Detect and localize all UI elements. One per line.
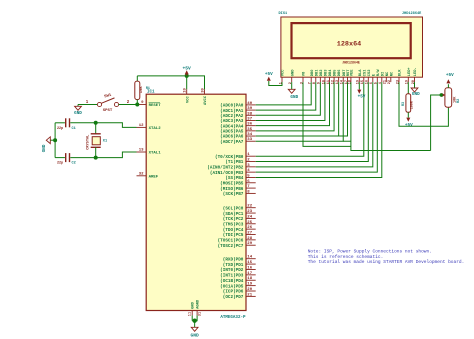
LCD pin 13 DB6 stub [338, 77, 340, 82]
pin 40 (ADC0)PA0 stub [246, 104, 256, 106]
supply +5V main arrow [185, 70, 189, 74]
svg-text:DB4: DB4 [329, 69, 333, 76]
svg-text:C1: C1 [72, 127, 76, 131]
svg-text:SPST: SPST [103, 109, 113, 113]
svg-text:21: 21 [384, 80, 388, 84]
junction chip ground node [192, 319, 196, 323]
wire LCD E to PB2 [256, 82, 373, 167]
LCD pin 19 LED+ stub [407, 77, 409, 82]
LCD pin 4 DI stub [381, 77, 383, 82]
pin 1 (T0/XCK)PB0 stub [246, 155, 256, 157]
svg-text:XTAL2: XTAL2 [149, 127, 162, 131]
svg-text:(SCK)PB7: (SCK)PB7 [223, 192, 244, 197]
svg-text:15: 15 [361, 80, 365, 84]
junction wiper node [440, 93, 443, 96]
svg-text:31: 31 [198, 312, 202, 316]
LCD screen area [292, 23, 411, 58]
LCD pin 20 LED- stub [414, 77, 416, 82]
svg-text:RESET: RESET [149, 104, 162, 108]
svg-text:C2: C2 [72, 162, 76, 166]
wire R2 top to +5V [447, 84, 449, 88]
junction RESET / R1 node [135, 103, 139, 107]
svg-text:(TXD)PD1: (TXD)PD1 [223, 263, 244, 268]
wire DB5 to PA5 [256, 82, 334, 131]
svg-text:33: 33 [247, 138, 252, 142]
svg-text:10K: 10K [140, 86, 144, 94]
svg-text:(MOSI)PB5: (MOSI)PB5 [220, 181, 244, 186]
svg-text:23: 23 [247, 210, 252, 214]
svg-text:+5V: +5V [183, 65, 192, 71]
switch SW1 contact 1 [97, 102, 101, 106]
svg-text:VEE: VEE [351, 69, 355, 76]
svg-text:38: 38 [247, 112, 252, 116]
wire LCD RST down to PA6 row [339, 82, 348, 136]
svg-text:CS2: CS2 [368, 70, 372, 77]
pin 23 (SDA)PC1 stub [246, 212, 256, 214]
svg-text:1: 1 [279, 82, 283, 84]
svg-text:(SDA)PC1: (SDA)PC1 [223, 212, 244, 217]
svg-text:(TOSC2)PC7: (TOSC2)PC7 [218, 244, 244, 249]
svg-text:+5V: +5V [446, 73, 454, 78]
pin 18 (OC1B)PD4 stub [246, 279, 256, 281]
svg-text:R1: R1 [146, 87, 150, 91]
svg-text:(TOSC1)PC6: (TOSC1)PC6 [218, 239, 244, 244]
pin 33 (ADC7)PA7 stub [246, 140, 256, 142]
pin 32 AREF stub [137, 175, 147, 177]
wire XTAL2 net top [96, 123, 137, 128]
LCD pin 7 DB0 stub [310, 77, 312, 82]
LCD pin 3 VO stub [302, 77, 304, 82]
svg-text:100R: 100R [410, 100, 414, 109]
LCD pin 21 NC stub [385, 77, 387, 82]
svg-text:22p: 22p [57, 127, 63, 131]
svg-text:(ICP)PD6: (ICP)PD6 [223, 290, 244, 295]
svg-text:JHD12864E: JHD12864E [342, 61, 360, 65]
svg-text:26: 26 [247, 226, 252, 230]
pin 35 (ADC5)PA5 stub [246, 130, 256, 132]
wire LCD CS2 to PB1 [256, 82, 369, 161]
pin 14 (RXD)PD0 stub [246, 258, 256, 260]
svg-text:4: 4 [379, 82, 383, 84]
svg-text:(MISO)PB6: (MISO)PB6 [220, 187, 244, 192]
wire DB4 to PA4 [256, 82, 330, 126]
resistor R3 body [406, 94, 411, 113]
svg-text:20: 20 [247, 288, 252, 292]
svg-text:NC: NC [390, 71, 394, 76]
pin 19 (OC1A)PD5 stub [246, 285, 256, 287]
pin 3 (AIN0/INT2)PB2 stub [246, 166, 256, 168]
svg-text:12: 12 [331, 80, 335, 84]
svg-text:XTAL1: XTAL1 [149, 152, 162, 156]
svg-text:10: 10 [322, 80, 326, 84]
wire DB0 to PA0 [256, 82, 312, 105]
svg-text:(TDO)PC4: (TDO)PC4 [223, 228, 244, 233]
LCD pin 9 DB2 stub [319, 77, 321, 82]
ground GND at LCD [288, 89, 295, 93]
pin 36 (ADC4)PA4 stub [246, 125, 256, 127]
wire LCD VCC to +5V [269, 81, 282, 86]
pin 21 (OC2)PD7 stub [246, 295, 256, 297]
svg-text:37: 37 [247, 117, 252, 121]
svg-text:19: 19 [406, 80, 410, 84]
svg-text:GND: GND [74, 111, 82, 116]
svg-text:GND: GND [191, 333, 200, 339]
pin 20 (ICP)PD6 stub [246, 290, 256, 292]
svg-text:AGND: AGND [197, 299, 201, 309]
wire DB2 to PA2 [256, 82, 321, 115]
svg-text:DB0: DB0 [311, 70, 315, 77]
chip IC1 ATMEGA32 body [146, 94, 246, 310]
svg-text:(SS)PB4: (SS)PB4 [225, 176, 243, 181]
wire LCD LED+ to R3 [407, 82, 409, 94]
svg-text:JHD12864E: JHD12864E [402, 12, 422, 16]
switch SW1 lever [101, 98, 114, 103]
svg-text:(INT1)PD3: (INT1)PD3 [220, 274, 244, 279]
pin 25 (TMS)PC3 stub [246, 223, 256, 225]
svg-text:GND: GND [290, 95, 298, 100]
svg-text:AREF: AREF [149, 176, 159, 180]
svg-text:(TDI)PC5: (TDI)PC5 [223, 233, 244, 238]
wire DB6 to PA6 [256, 82, 339, 136]
pin 11 GND stub [191, 311, 193, 316]
LCD pin 6 E stub [372, 77, 374, 82]
supply +5V below R3 [406, 118, 410, 122]
LCD pin 22 NC stub [390, 77, 392, 82]
pin 26 (TDO)PC4 stub [246, 228, 256, 230]
svg-text:3: 3 [300, 82, 304, 84]
wire LCD VEE down through PA7 row to wiper rail [351, 82, 431, 150]
svg-text:27: 27 [247, 232, 252, 236]
crystal X1 top plate [91, 133, 101, 135]
svg-text:35: 35 [247, 128, 252, 132]
pin 8 (SCK)PB7 stub [246, 192, 256, 194]
svg-text:LED-: LED- [414, 67, 418, 76]
svg-text:13: 13 [336, 80, 340, 84]
svg-text:+5V: +5V [358, 95, 366, 100]
svg-text:NC: NC [386, 71, 390, 76]
LCD pin 17 RST stub [347, 77, 349, 82]
svg-text:19: 19 [357, 80, 361, 84]
ground GND at crystal rail [50, 139, 55, 141]
svg-text:(INT0)PD2: (INT0)PD2 [220, 268, 244, 273]
ground GND at switch [77, 105, 79, 107]
pin 22 (SCL)PC0 stub [246, 207, 256, 209]
svg-text:DB2: DB2 [320, 70, 324, 77]
pin 2 (T1)PB1 stub [246, 161, 256, 163]
svg-text:GND: GND [291, 69, 295, 76]
capacitor C1 left lead [55, 122, 65, 124]
wire left rail C1-C2 [54, 123, 56, 158]
svg-text:8: 8 [313, 82, 317, 84]
pin 28 (TOSC1)PC6 stub [246, 239, 256, 241]
svg-text:128x64: 128x64 [337, 41, 361, 49]
crystal X1 top lead [95, 123, 97, 134]
svg-text:(AIN0/INT2)PB2: (AIN0/INT2)PB2 [207, 166, 244, 171]
junction left rail GND tap [53, 138, 57, 142]
capacitor C1 right lead [70, 122, 95, 124]
LCD pin 23 BLK stub [398, 77, 400, 82]
supply +5V at LCD VCC [267, 77, 271, 81]
pin 17 (INT1)PD3 stub [246, 274, 256, 276]
svg-text:18: 18 [247, 277, 252, 281]
svg-text:CS1: CS1 [363, 69, 367, 76]
svg-text:BLA: BLA [359, 69, 363, 76]
svg-text:23: 23 [396, 80, 400, 84]
svg-text:LED+: LED+ [408, 67, 412, 77]
pin 30 AVCC stub [204, 89, 206, 94]
pin 7 (MISO)PB6 stub [246, 187, 256, 189]
trimmer R2 wiper arrow [442, 93, 446, 97]
svg-text:VCC: VCC [186, 95, 190, 103]
svg-text:39: 39 [247, 107, 252, 111]
svg-text:(AIN1/OC0)PB3: (AIN1/OC0)PB3 [210, 171, 244, 176]
svg-text:AVCC: AVCC [204, 95, 208, 105]
svg-text:36: 36 [247, 123, 252, 127]
pin 34 (ADC6)PA6 stub [246, 135, 256, 137]
svg-text:25: 25 [247, 221, 252, 225]
svg-text:(OC1A)PD5: (OC1A)PD5 [220, 284, 244, 289]
svg-text:(TCK)PC2: (TCK)PC2 [223, 217, 244, 222]
svg-text:13: 13 [139, 149, 144, 153]
svg-text:Note: ISP, Power Supply Connec: Note: ISP, Power Supply Connections not … [308, 249, 432, 255]
svg-text:2: 2 [289, 82, 293, 84]
svg-text:(TMS)PC3: (TMS)PC3 [223, 222, 244, 227]
wire LCD backlight-anode pin to +5V [358, 82, 360, 89]
wire +5V to AVCC pin30 [187, 76, 205, 89]
svg-text:16: 16 [366, 80, 370, 84]
svg-text:DIS1: DIS1 [279, 12, 288, 16]
pin 13 XTAL1 stub [137, 151, 147, 153]
svg-text:(T0/XCK)PB0: (T0/XCK)PB0 [215, 155, 244, 160]
pin 5 (SS)PB4 stub [246, 176, 256, 178]
LCD pin 16 CS2 stub [367, 77, 369, 82]
LCD pin 2 GND stub [291, 77, 293, 82]
svg-text:GND: GND [192, 301, 196, 309]
wire DB7 to PA7 [256, 82, 344, 141]
svg-text:R3: R3 [402, 102, 406, 106]
pin 4 (AIN1/OC0)PB3 stub [246, 171, 256, 173]
svg-text:(OC2)PD7: (OC2)PD7 [223, 295, 244, 300]
wire LCD LED- to ground [414, 82, 416, 88]
LCD pin 19 BLA stub [358, 77, 360, 82]
svg-text:15: 15 [247, 261, 252, 265]
svg-text:20: 20 [412, 80, 416, 84]
wire R3 bottom lead [407, 112, 409, 117]
svg-text:CRYSTAL: CRYSTAL [86, 135, 90, 150]
pin 12 XTAL2 stub [137, 126, 147, 128]
supply +5V below LCD control pin [357, 90, 361, 94]
svg-text:DI: DI [381, 72, 385, 76]
svg-text:21: 21 [247, 293, 252, 297]
svg-text:This is reference schematic.: This is reference schematic. [308, 254, 384, 260]
LCD pin 1 VCC stub [281, 77, 283, 82]
wire LCD R/W to PB3 [256, 82, 378, 172]
wire +5V rail to R1 top [137, 75, 186, 77]
wire LCD CS1 to PB0 [256, 82, 364, 156]
svg-text:(OC1B)PD4: (OC1B)PD4 [220, 279, 244, 284]
wire switch pin2 to RESET pin [119, 104, 137, 106]
svg-text:(ADC7)PA7: (ADC7)PA7 [220, 140, 244, 145]
pin 37 (ADC3)PA3 stub [246, 119, 256, 121]
svg-text:GND: GND [42, 144, 47, 152]
wire DB3 to PA3 [256, 82, 325, 120]
svg-text:16: 16 [247, 266, 252, 270]
pin 27 (TDI)PC5 stub [246, 234, 256, 236]
wire wiper to VO net [431, 95, 442, 151]
pin 31 AGND stub [196, 311, 198, 316]
LCD module DIS1 body [281, 17, 423, 77]
svg-text:24: 24 [247, 215, 252, 219]
svg-text:R/W: R/W [376, 69, 381, 76]
resistor R1 body [135, 81, 140, 100]
wire AGND pin31 down [192, 315, 197, 320]
pin 39 (ADC1)PA1 stub [246, 109, 256, 111]
wire PA7 row extension to VEE vertical [343, 140, 351, 142]
svg-text:9: 9 [318, 82, 322, 84]
svg-text:VO: VO [303, 71, 307, 76]
supply +5V above R2 [446, 79, 450, 83]
wire LCD DI to PB4 [256, 82, 382, 177]
svg-text:22p: 22p [57, 162, 63, 166]
trimmer R2 body [445, 88, 452, 107]
svg-text:28: 28 [247, 237, 252, 241]
wire VO vertical and horizontal run [303, 82, 351, 146]
wire down to GND symbol [194, 321, 196, 328]
ground GND below chip [191, 327, 198, 331]
pin 10 VCC stub [186, 89, 188, 94]
pin 16 (INT0)PD2 stub [246, 268, 256, 270]
LCD pin 15 CS1 stub [363, 77, 365, 82]
wire LCD backlight pin to trimmer bottom rail [399, 82, 448, 126]
wire +5V to VCC pin10 [186, 76, 188, 89]
pin 38 (ADC2)PA2 stub [246, 114, 256, 116]
LCD pin 10 DB3 stub [324, 77, 326, 82]
svg-text:5: 5 [375, 82, 379, 84]
crystal X1 bottom lead [95, 147, 97, 157]
svg-text:(SCL)PC0: (SCL)PC0 [223, 206, 244, 211]
svg-text:22: 22 [388, 80, 392, 84]
capacitor C2 left lead [55, 157, 65, 159]
LCD pin 11 DB4 stub [329, 77, 331, 82]
svg-text:+5V: +5V [265, 72, 273, 77]
svg-text:34: 34 [247, 133, 252, 137]
LCD pin 5 R/W stub [376, 77, 378, 82]
svg-text:17: 17 [247, 272, 252, 276]
crystal X1 body [92, 137, 100, 145]
svg-text:DB3: DB3 [325, 69, 329, 76]
svg-text:GND: GND [412, 92, 420, 97]
svg-text:19: 19 [247, 283, 252, 287]
svg-text:6: 6 [370, 82, 374, 84]
svg-text:X1: X1 [103, 140, 107, 144]
svg-text:The tutorial was made using ST: The tutorial was made using STARTER AVR … [308, 259, 465, 265]
svg-text:11: 11 [327, 80, 331, 84]
switch SW1 contact 2 [114, 102, 118, 106]
ground GND at LED- [411, 88, 418, 92]
LCD pin 12 DB5 stub [333, 77, 335, 82]
crystal X1 bottom plate [91, 146, 101, 148]
LCD pin 8 DB1 stub [315, 77, 317, 82]
svg-text:29: 29 [247, 242, 252, 246]
LCD pin 14 DB7 stub [342, 77, 344, 82]
capacitor C1 plates [65, 118, 67, 127]
pin 9 RESET stub [137, 104, 147, 106]
svg-text:DB1: DB1 [315, 69, 319, 76]
wire R1 bottom lead to RESET net [136, 100, 138, 105]
svg-text:18: 18 [348, 80, 352, 84]
wire LCD GND down [291, 82, 293, 89]
wire R1 top lead [136, 76, 138, 81]
svg-text:ATMEGA32-P: ATMEGA32-P [220, 316, 246, 320]
svg-text:R2: R2 [457, 99, 461, 103]
pin 6 (MOSI)PB5 stub [246, 182, 256, 184]
svg-text:12: 12 [139, 124, 144, 128]
svg-text:DB6: DB6 [338, 70, 342, 77]
svg-text:(T1)PB1: (T1)PB1 [225, 160, 243, 165]
pin 29 (TOSC2)PC7 stub [246, 244, 256, 246]
pin 24 (TCK)PC2 stub [246, 217, 256, 219]
svg-text:7: 7 [309, 82, 313, 84]
svg-text:(RXD)PD0: (RXD)PD0 [223, 257, 244, 262]
wire GND to switch pin1 [78, 104, 97, 106]
junction crystal bottom node [94, 156, 98, 160]
junction +5V node [185, 74, 189, 78]
svg-text:32: 32 [139, 172, 144, 176]
LCD pin 18 VEE stub [350, 77, 352, 82]
svg-text:DB5: DB5 [334, 69, 338, 76]
svg-text:14: 14 [247, 256, 252, 260]
wire XTAL1 net bottom [96, 152, 137, 158]
capacitor C2 right lead [70, 157, 95, 159]
wire GND pin11 down [191, 315, 193, 320]
pin 15 (TXD)PD1 stub [246, 263, 256, 265]
wire DB1 to PA1 [256, 82, 316, 110]
capacitor C2 plates [65, 153, 67, 162]
svg-text:BLK: BLK [399, 69, 403, 76]
junction crystal top node [94, 121, 98, 125]
svg-text:+5V: +5V [405, 123, 413, 128]
svg-text:40: 40 [247, 102, 252, 106]
svg-text:22: 22 [247, 205, 252, 209]
svg-text:VCC: VCC [282, 69, 286, 76]
